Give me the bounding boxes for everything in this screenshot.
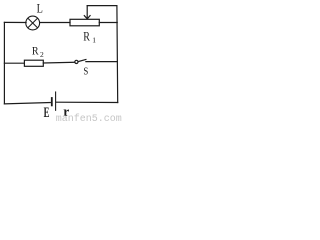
wire middle-left to R2: [4, 62, 24, 64]
svg-text:1: 1: [92, 36, 96, 45]
battery negative plate (short): [51, 98, 53, 105]
wire lamp to R1: [40, 22, 70, 24]
svg-text:R: R: [32, 45, 39, 58]
battery positive plate (long): [55, 92, 57, 110]
wire left edge vertical: [3, 22, 5, 104]
svg-text:R: R: [83, 31, 90, 44]
resistor R2 body: [24, 60, 43, 66]
wire R1 right to right edge: [99, 22, 117, 24]
svg-text:L: L: [37, 3, 43, 16]
wire top-left horizontal: [4, 21, 26, 23]
switch S pivot: [75, 60, 78, 63]
switch S blade: [78, 60, 86, 62]
wire switch to right edge: [86, 61, 118, 63]
wire battery to bottom-right: [56, 101, 117, 103]
R1 slider arrow: [84, 6, 90, 19]
svg-text:manfen5.com: manfen5.com: [56, 113, 122, 122]
wire bottom-left to battery: [4, 103, 50, 104]
lamp L symbol: [26, 16, 40, 30]
svg-text:S: S: [83, 66, 88, 78]
wire R2 to switch: [43, 61, 75, 64]
svg-text:E: E: [44, 104, 50, 121]
rheostat R1 body: [70, 19, 99, 26]
svg-text:2: 2: [40, 50, 44, 59]
wire right edge vertical: [116, 6, 119, 103]
wire slider top path: [87, 5, 117, 7]
